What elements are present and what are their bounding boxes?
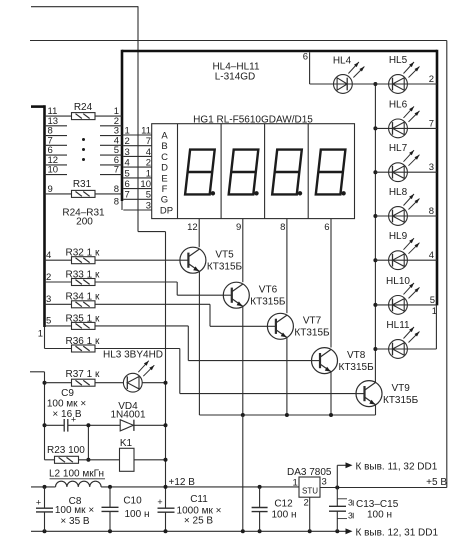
wire VT8 emitter — [330, 372, 332, 415]
svg-text:8: 8 — [429, 206, 434, 217]
node pin 4 — [429, 250, 434, 261]
svg-text:D: D — [161, 163, 168, 174]
wire segment row G — [123, 198, 151, 200]
capacitor C12 — [252, 487, 268, 531]
wire segment row E — [123, 177, 151, 179]
svg-text:1: 1 — [38, 329, 43, 340]
node wire-7 entry — [114, 165, 119, 176]
node HG1 pin 2 — [146, 158, 151, 169]
svg-text:+5 В: +5 В — [426, 477, 447, 488]
transistor VT7 — [267, 313, 293, 339]
wire HL11 riser — [435, 305, 437, 349]
svg-text:× 25 В: × 25 В — [184, 515, 214, 526]
display segment label D — [161, 163, 168, 174]
svg-text:6: 6 — [125, 179, 130, 190]
node HG1 pin 12 label — [187, 222, 198, 233]
resistor R23 label — [47, 445, 85, 456]
node pin 11 — [48, 106, 58, 117]
LED HL9 label — [389, 231, 408, 242]
capacitor C12 label — [272, 498, 297, 520]
LED HL8 arrows — [404, 194, 420, 210]
wire stub pin 13 — [45, 125, 68, 127]
node HG1 pin 1 — [146, 168, 151, 179]
wire DA3 ground — [309, 497, 311, 531]
capacitor C9 label — [47, 388, 86, 420]
label +12V — [169, 477, 196, 488]
wire DA3 output — [320, 487, 447, 489]
node pin 7 — [48, 135, 53, 146]
wire R23 row — [45, 459, 120, 461]
transistor VT9 — [356, 381, 382, 407]
resistor R37 — [72, 379, 96, 386]
svg-text:3: 3 — [146, 200, 151, 211]
LED HL4 label — [333, 55, 352, 66]
node junction HL3 row — [43, 381, 47, 385]
node junction R23 riser top — [86, 423, 90, 427]
wire stub entry 2 — [100, 125, 122, 127]
svg-text:R31: R31 — [73, 179, 92, 190]
svg-text:11: 11 — [141, 125, 151, 136]
svg-text:7: 7 — [114, 165, 119, 176]
svg-text:3: 3 — [429, 162, 434, 173]
harness top edge — [122, 50, 437, 53]
transistor VT5 label — [207, 249, 243, 272]
node LED bus junction y172.2 — [373, 170, 377, 174]
wire HL6 row — [375, 127, 437, 129]
capacitor C10 — [102, 487, 119, 531]
LED HL10 label — [386, 276, 410, 287]
svg-text:9: 9 — [48, 184, 53, 195]
svg-text:C11: C11 — [190, 494, 208, 505]
node LED bus junction y128.4 — [373, 126, 377, 130]
svg-text:3: 3 — [46, 294, 51, 305]
svg-text:+: + — [157, 497, 162, 507]
svg-text:100 н: 100 н — [367, 510, 392, 521]
LED HL7 arrows — [404, 150, 420, 166]
LED HL9 arrows — [404, 238, 420, 254]
LED HL7 label — [389, 143, 408, 154]
svg-text:R23 100: R23 100 — [47, 445, 85, 456]
node DA3 pin 3 — [322, 477, 327, 488]
node LED bus junction y349 — [373, 347, 377, 351]
harness right edge — [436, 50, 439, 306]
wire stub entry 4 — [100, 144, 122, 146]
svg-text:3: 3 — [322, 477, 327, 488]
wire segment row DP — [123, 209, 151, 211]
resistor R36 label — [66, 336, 100, 347]
node pin 5 — [430, 295, 435, 306]
arrow +5V to DD1 — [346, 462, 353, 468]
node pin 13 — [48, 116, 59, 127]
svg-text:× 35 В: × 35 В — [60, 516, 90, 527]
svg-text:K1: K1 — [120, 438, 133, 449]
svg-text:E: E — [161, 173, 167, 184]
wire HG1 pin 9 — [242, 219, 244, 283]
node pin 8 — [429, 206, 434, 217]
LED HL5 label — [389, 55, 408, 66]
ellipsis dots R25-R30 — [82, 138, 85, 161]
wire +12V feed down to relay area — [165, 232, 167, 532]
svg-text:G: G — [161, 195, 168, 206]
svg-text:100 н: 100 н — [272, 509, 297, 520]
wire segment row B — [123, 145, 151, 147]
bus DD1 vertical — [43, 105, 46, 348]
node HG1 pin 6 label — [324, 222, 329, 233]
wire +12V feed top line — [31, 6, 138, 8]
LED HL4 arrows — [348, 62, 364, 78]
node HG1 pin 4 — [146, 147, 151, 158]
display segment label F — [162, 184, 168, 195]
wire segment row A — [123, 134, 151, 136]
capacitor C8 label — [55, 496, 94, 527]
node DA3 pin 1 — [293, 477, 298, 488]
resistor R24 label — [74, 102, 93, 113]
svg-text:HL9: HL9 — [389, 231, 408, 242]
transistor VT8 — [312, 348, 338, 374]
svg-text:R32 1 к: R32 1 к — [66, 248, 100, 259]
node HG1 pin 9 label — [236, 222, 241, 233]
svg-text:3: 3 — [348, 497, 353, 507]
svg-text:1N4001: 1N4001 — [110, 410, 145, 421]
svg-text:L2 100 мкГн: L2 100 мкГн — [49, 469, 104, 480]
svg-text:DP: DP — [160, 205, 173, 216]
svg-text:HL10: HL10 — [386, 276, 410, 287]
resistor R23 — [55, 456, 79, 463]
svg-text:HL7: HL7 — [389, 143, 408, 154]
value label R24-R31 200 — [62, 208, 105, 228]
svg-text:100 мк ×: 100 мк × — [55, 505, 94, 516]
wire +12V rail — [31, 486, 299, 488]
capacitor C13-C15 label — [356, 499, 399, 521]
capacitor C11 — [157, 497, 174, 512]
node wire-8 entry — [114, 184, 119, 195]
resistor R32 — [72, 257, 96, 264]
wire emitter bus to ground — [242, 415, 244, 531]
node pin 1 lower — [432, 306, 437, 317]
svg-text:3: 3 — [125, 147, 130, 158]
capacitor C10 label — [123, 495, 149, 520]
resistor R24 — [72, 113, 96, 120]
node wire-5 exit — [125, 168, 130, 179]
wire HG1 pin 8 — [286, 219, 288, 314]
wire R37 net stub — [30, 372, 45, 460]
wire HL4 pin 6 stub — [309, 52, 311, 84]
wire stub pin 6 — [45, 154, 68, 156]
svg-text:КТ315Б: КТ315Б — [207, 261, 243, 272]
wire R35 net — [45, 326, 312, 361]
LED HL4 — [334, 75, 353, 94]
bus DD1 stub — [31, 105, 45, 108]
regulator DA3 label — [287, 467, 332, 478]
svg-text:A: A — [161, 130, 168, 141]
svg-text:2: 2 — [146, 158, 151, 169]
svg-text:1: 1 — [293, 477, 298, 488]
node +12V junctions — [43, 485, 262, 489]
LED HL3 arrows — [138, 361, 154, 377]
LED HL6 arrows — [404, 106, 420, 122]
wire HL9 row — [375, 259, 437, 261]
label +5V — [426, 477, 447, 488]
LED HL11 arrows — [404, 327, 420, 343]
svg-text:R34 1 к: R34 1 к — [66, 292, 100, 303]
svg-text:VT8: VT8 — [347, 350, 366, 361]
resistor R33 label — [66, 269, 100, 280]
node junction R23 riser bottom — [86, 458, 90, 462]
inductor L2 label — [49, 469, 105, 480]
node pin 10 — [48, 165, 59, 176]
LED HL6 — [389, 119, 408, 138]
node HG1 pin 3 — [146, 200, 151, 211]
wire VT6 emitter — [242, 306, 244, 415]
svg-text:1: 1 — [125, 125, 130, 136]
label K vyv 12 31 DD1 — [356, 528, 439, 539]
LED HL5 arrows — [404, 62, 420, 78]
node HG1 pin 5 — [146, 190, 151, 201]
svg-text:VT7: VT7 — [303, 316, 322, 327]
svg-text:4: 4 — [125, 158, 130, 169]
svg-text:10: 10 — [140, 179, 151, 190]
LED HL3 label — [103, 350, 163, 361]
wire VT5 emitter — [198, 271, 200, 415]
node pin 1 bus end — [38, 329, 43, 340]
display digit 4 — [316, 150, 346, 196]
transistor VT8 label — [339, 350, 375, 373]
wire R31 row — [45, 193, 123, 195]
harness left edge — [121, 50, 124, 210]
display segment label B — [161, 141, 167, 152]
node pin 9 — [48, 184, 53, 195]
resistor R33 — [72, 279, 96, 286]
svg-text:7: 7 — [429, 118, 434, 129]
svg-text:VT6: VT6 — [259, 284, 278, 295]
svg-text:КТ315Б: КТ315Б — [294, 328, 330, 339]
node LED bus junction y84 — [373, 82, 377, 86]
wire VT9 collector LED bus — [374, 84, 376, 382]
LED HL6 label — [389, 99, 408, 110]
node pin 7 — [429, 118, 434, 129]
svg-text:КТ315Б: КТ315Б — [250, 296, 286, 307]
node pin 3 — [46, 294, 51, 305]
resistor R32 label — [66, 248, 100, 259]
resistor R37 label — [66, 369, 100, 380]
svg-text:C: C — [161, 152, 168, 163]
svg-text:6: 6 — [324, 222, 329, 233]
svg-text:HL8: HL8 — [389, 187, 408, 198]
svg-text:КТ315Б: КТ315Б — [383, 395, 419, 406]
display cell dividers — [178, 124, 309, 219]
wire R32 net — [45, 259, 180, 261]
svg-text:HL11: HL11 — [386, 320, 410, 331]
node pin 3 — [429, 162, 434, 173]
capacitor C13-C15 count marks — [337, 497, 353, 520]
wire +12V feed vertical — [137, 6, 139, 231]
wire segment row D — [123, 166, 151, 168]
svg-text:12: 12 — [187, 222, 198, 233]
transistor VT5 — [180, 247, 206, 273]
capacitor C11 label — [177, 494, 222, 526]
svg-text:4: 4 — [46, 250, 51, 261]
label K vyv 11 32 DD1 — [356, 462, 438, 473]
svg-text:C10: C10 — [123, 495, 142, 506]
svg-text:2: 2 — [46, 272, 51, 283]
svg-text:C12: C12 — [274, 498, 293, 509]
inductor L2 — [56, 481, 102, 487]
wire stub pin 10 — [45, 174, 68, 176]
svg-text:100 мк ×: 100 мк × — [47, 398, 86, 409]
LED HL10 arrows — [404, 283, 420, 299]
svg-text:HL5: HL5 — [389, 55, 408, 66]
svg-text:6: 6 — [303, 52, 308, 63]
node ground junctions — [43, 529, 340, 533]
wire VT9 emitter — [375, 405, 377, 415]
svg-text:VT5: VT5 — [215, 249, 234, 260]
display digit 3 — [272, 150, 302, 196]
display digit 2 — [229, 150, 259, 196]
display digit 1 — [185, 150, 215, 196]
node LED bus junction y304.9 — [373, 303, 377, 307]
node HG1 pin 7 — [146, 136, 151, 147]
node wire-8 exit — [114, 197, 119, 208]
node pin 5 — [46, 316, 51, 327]
svg-text:R35 1 к: R35 1 к — [66, 313, 100, 324]
arrow ground to DD1 — [346, 528, 353, 534]
svg-text:1: 1 — [146, 168, 151, 179]
node wire-3 entry — [114, 126, 119, 137]
svg-text:2: 2 — [304, 498, 309, 509]
resistor R36 — [72, 345, 96, 352]
wire segment row F — [123, 188, 151, 190]
label HL4-HL11 L-314GD — [212, 62, 260, 83]
svg-text:8: 8 — [114, 197, 119, 208]
LED HL8 label — [389, 187, 408, 198]
svg-text:× 16 В: × 16 В — [52, 409, 82, 420]
wire stub entry 3 — [100, 135, 122, 137]
node pin 6 — [48, 145, 53, 156]
display segment label A — [161, 130, 168, 141]
display HG1 label — [193, 114, 313, 125]
svg-text:C13–C15: C13–C15 — [356, 499, 399, 510]
LED HL8 — [389, 207, 408, 226]
svg-text:4: 4 — [429, 250, 434, 261]
display HG1 box — [152, 124, 355, 219]
svg-text:2: 2 — [429, 74, 434, 85]
transistor VT6 — [223, 282, 249, 308]
node +5V junction — [335, 486, 339, 490]
transistor VT7 label — [294, 316, 330, 339]
resistor R35 label — [66, 313, 100, 324]
wire +12V feed jog — [138, 231, 166, 233]
wire stub pin 7 — [45, 144, 68, 146]
wire stub pin 8 — [45, 135, 68, 137]
wire pin-6 net horizontal — [30, 40, 447, 42]
node wire-7 exit — [125, 190, 130, 201]
LED HL3 — [123, 373, 142, 392]
display segment label DP — [160, 205, 173, 216]
display segment label G — [161, 195, 168, 206]
resistor R31 — [72, 190, 96, 197]
wire ground rail — [31, 530, 346, 532]
svg-text:200: 200 — [76, 216, 93, 227]
node junction VD4 right — [164, 423, 168, 427]
wire HG1 pin 6 — [330, 219, 332, 348]
resistor R31 label — [73, 179, 92, 190]
svg-text:VT9: VT9 — [392, 383, 411, 394]
svg-text:100 н: 100 н — [125, 509, 150, 520]
svg-text:R36 1 к: R36 1 к — [66, 336, 100, 347]
LED HL11 — [389, 340, 408, 359]
node wire-1 entry — [114, 106, 119, 117]
node pin 6 — [303, 52, 308, 63]
svg-text:5: 5 — [125, 168, 130, 179]
node junction C9 row — [43, 423, 47, 427]
svg-text:7: 7 — [125, 190, 130, 201]
node emitter junctions — [241, 413, 333, 417]
wire R36 net — [45, 349, 357, 394]
wire R24 row — [45, 115, 123, 117]
LED HL11 label — [386, 320, 410, 331]
node HG1 pin 8 label — [280, 222, 285, 233]
resistor R35 — [72, 322, 96, 329]
node wire-6 entry — [114, 155, 119, 166]
LED HL5 — [389, 75, 408, 94]
wire HL10 row — [375, 304, 436, 306]
LED HL9 — [389, 251, 408, 270]
svg-text:4: 4 — [146, 147, 151, 158]
svg-text:HL4: HL4 — [333, 55, 352, 66]
display segment label E — [161, 173, 167, 184]
relay K1 — [120, 448, 135, 471]
wire stub pin 12 — [45, 164, 68, 166]
transistor VT9 label — [383, 383, 419, 406]
svg-text:5: 5 — [146, 190, 151, 201]
node DA3 pin 2 — [304, 498, 309, 509]
wire R34 net — [45, 304, 268, 326]
wire C9 VD4 row — [45, 424, 166, 426]
capacitor C13-C15 — [329, 488, 346, 532]
node pin 8 — [48, 126, 53, 137]
regulator DA3 — [299, 477, 320, 497]
svg-text:R37 1 к: R37 1 к — [66, 369, 100, 380]
wire segment row C — [123, 155, 151, 157]
node wire-6 exit — [125, 179, 130, 190]
svg-text:+: + — [36, 497, 41, 507]
display segment label C — [161, 152, 168, 163]
node wire-2 entry — [114, 116, 119, 127]
diode VD4 label — [110, 401, 145, 420]
node pin 12 — [48, 155, 59, 166]
wire HL3 row — [45, 382, 166, 384]
node junction HL3 right — [164, 381, 168, 385]
svg-text:5: 5 — [46, 316, 51, 327]
LED HL10 — [389, 296, 408, 315]
svg-text:8: 8 — [114, 184, 119, 195]
svg-text:КТ315Б: КТ315Б — [339, 362, 375, 373]
wire +5V right vertical — [446, 41, 448, 488]
capacitor C9 — [64, 415, 76, 432]
svg-text:B: B — [161, 141, 167, 152]
svg-text:9: 9 — [236, 222, 241, 233]
wire K1 right — [134, 459, 166, 461]
svg-text:L-314GD: L-314GD — [215, 71, 256, 82]
wire stub entry 7 — [100, 174, 122, 176]
svg-text:+12 В: +12 В — [169, 477, 196, 488]
resistor R34 — [72, 301, 96, 308]
svg-text:HL3 3BY4HD: HL3 3BY4HD — [103, 350, 163, 361]
svg-text:R24: R24 — [74, 102, 93, 113]
node pin 4 — [46, 250, 51, 261]
node wire-4 entry — [114, 135, 119, 146]
node HG1 pin 11 — [141, 125, 151, 136]
